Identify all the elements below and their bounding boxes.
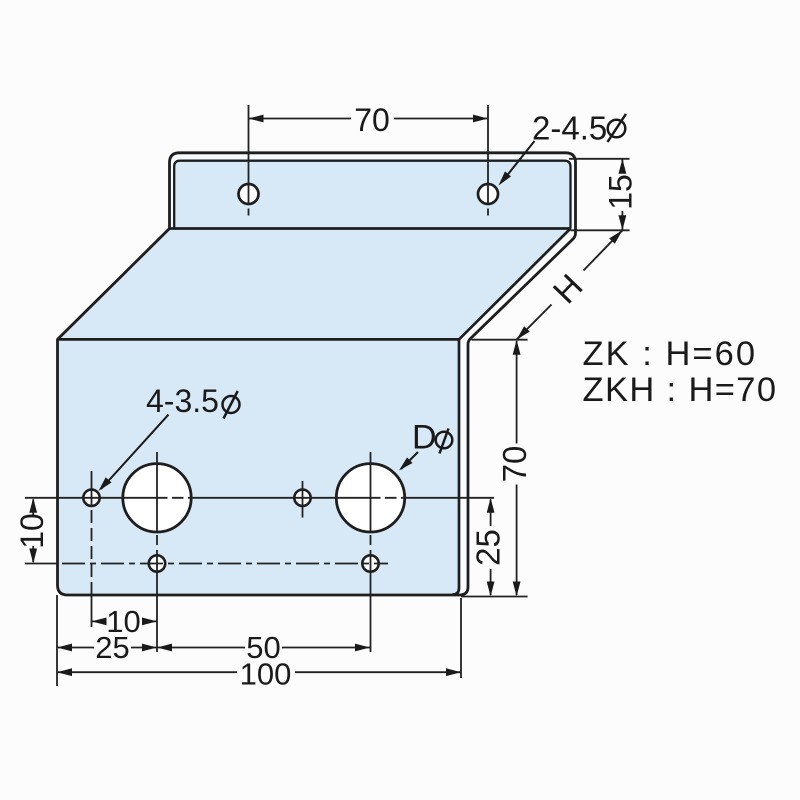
flange edge band (white) (170, 153, 576, 229)
label 4-3.5phi: leader arrowhead (99, 477, 112, 491)
dim 10 left: up arrowhead (29, 498, 37, 513)
dim 10 left: down arrowhead (29, 549, 37, 564)
extension line face right edge down (460, 598, 462, 678)
dim 50 bottom: left arrowhead (157, 644, 172, 652)
svg-text:25: 25 (95, 630, 129, 665)
svg-text:ZKH : H=70: ZKH : H=70 (583, 371, 777, 409)
top dim 70: right arrowhead (473, 115, 488, 123)
label 4-3.5phi: leader line (101, 415, 169, 489)
svg-text:25: 25 (470, 529, 507, 566)
dim 15: top extension line (569, 158, 630, 160)
dim 10 bottom: dimension line (92, 620, 158, 622)
lower horizontal centerline (25, 563, 57, 565)
horizontal centerline through holes (25, 497, 494, 499)
small hole bottom-right (362, 555, 378, 571)
dim 25 right: up arrowhead (487, 498, 495, 513)
svg-text:2-4.5: 2-4.5 (532, 110, 607, 147)
bracket outer contour (58, 153, 576, 595)
vertical centerline left small hole (91, 471, 93, 507)
dim 25 bottom: dimension line (57, 647, 370, 649)
dim 70 right: dimension line (516, 341, 518, 595)
dim 10 left: dimension line (32, 500, 34, 563)
flange hole right (478, 184, 498, 204)
dim H: upper arrowhead (609, 230, 622, 244)
svg-text:D: D (412, 419, 437, 457)
extension line face left edge down (56, 595, 58, 686)
vertical centerline right big hole column (370, 452, 372, 532)
flange inner face (blue) (174, 161, 570, 229)
front face right inner edge (453, 339, 460, 594)
dim 100 bottom: left arrowhead (57, 668, 72, 676)
big hole right (Dphi) (336, 464, 404, 532)
flange hole left (239, 184, 259, 204)
dim 70 right: down arrowhead (513, 582, 521, 597)
dim H: dimension line (517, 230, 623, 339)
dim 10 bottom: right arrowhead (142, 618, 157, 626)
dim 15: dimension line (621, 159, 623, 231)
top dim 70: dimension line (249, 118, 489, 120)
sheet edge strip (white) along right side (459, 229, 576, 596)
dim 15: bottom extension line (571, 229, 630, 231)
label 4-3.5phi: phi symbol (223, 391, 240, 419)
svg-text:70: 70 (496, 446, 533, 483)
dim 25 right: dimension line (490, 500, 492, 596)
label Dphi: leader line (401, 452, 418, 469)
small hole bottom-left (149, 555, 165, 571)
top dim 70: left arrowhead (249, 115, 264, 123)
dim 25 bottom: right arrowhead (142, 644, 157, 652)
dim 70 right: up arrowhead (513, 340, 521, 355)
inner slant edge line (459, 229, 571, 340)
svg-text:100: 100 (240, 657, 292, 692)
dim 15: down arrowhead (619, 215, 627, 230)
svg-text:70: 70 (354, 102, 390, 138)
label Dphi: phi symbol (436, 429, 453, 454)
svg-text:15: 15 (603, 174, 639, 210)
flange inner bend line (174, 161, 570, 229)
dim 25 right: down arrowhead (487, 582, 495, 597)
dim 70 right: top extension line (472, 339, 528, 341)
label Dphi: leader arrowhead (399, 457, 413, 470)
bracket body silhouette (blue fill) (58, 153, 576, 595)
dim 25 bottom: left arrowhead (57, 644, 72, 652)
svg-text:ZK : H=60: ZK : H=60 (583, 335, 756, 373)
vertical centerline left big hole column (156, 452, 158, 532)
dim 100 bottom: right arrowhead (446, 668, 461, 676)
dim H: lower arrowhead (517, 326, 530, 340)
label 2-4.5phi: phi symbol (608, 114, 626, 142)
dim 10 bottom: left arrowhead (92, 618, 107, 626)
top dim 70: extension line left (248, 105, 250, 216)
small hole center (294, 490, 310, 506)
top dim 70: extension line right (487, 105, 489, 216)
dim 50 bottom: right arrowhead (355, 644, 370, 652)
svg-text:4-3.5: 4-3.5 (146, 383, 219, 419)
small hole left (83, 490, 99, 506)
front face top edge (58, 338, 460, 341)
svg-text:10: 10 (14, 513, 50, 549)
fold line (flange bottom edge) (170, 227, 571, 230)
big hole left (Dphi) (123, 464, 191, 532)
dim 15: up arrowhead (619, 159, 627, 174)
vertical centerline center small hole (302, 481, 304, 518)
label 2-4.5phi: leader arrowhead (499, 171, 512, 185)
dim 70 right: bottom extension line (461, 596, 528, 598)
label 2-4.5phi: leader line (503, 141, 535, 181)
dim 100 bottom: dimension line (57, 671, 461, 673)
